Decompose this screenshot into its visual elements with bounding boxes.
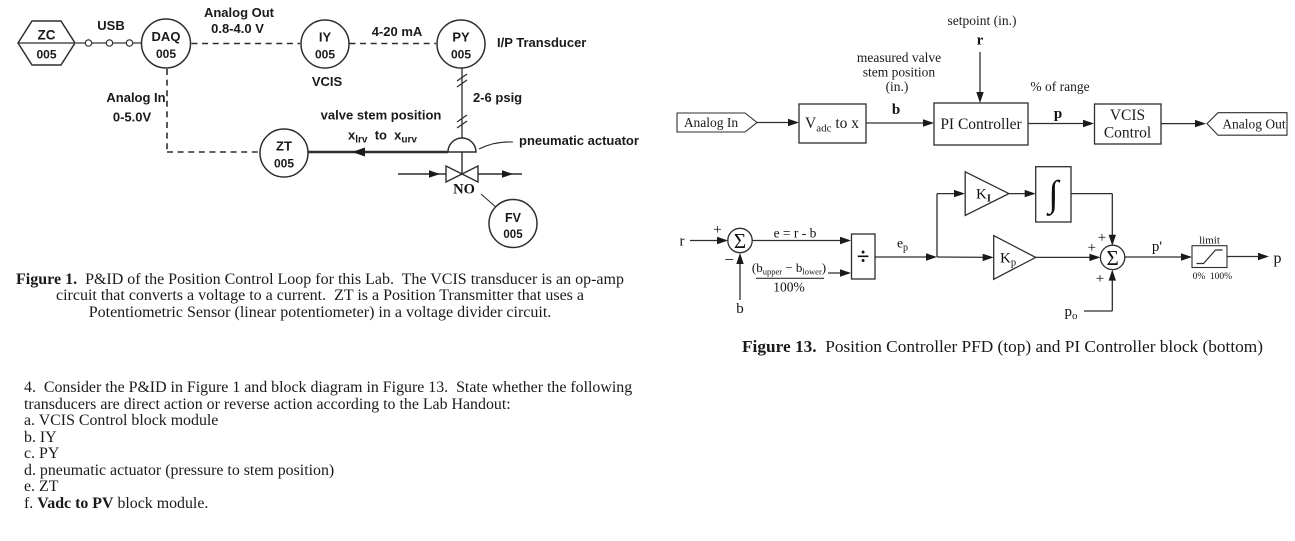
svg-text:r: r — [680, 234, 685, 250]
gain KI triangle — [965, 172, 1009, 216]
svg-text:005: 005 — [503, 229, 523, 241]
valve stem wire — [461, 152, 463, 174]
svg-text:100%: 100% — [773, 280, 805, 295]
control valve FV body — [446, 166, 478, 182]
svg-text:005: 005 — [451, 48, 471, 62]
svg-text:ep: ep — [897, 236, 908, 254]
svg-text:100%: 100% — [1210, 272, 1232, 282]
svg-text:÷: ÷ — [857, 244, 870, 269]
svg-text:ZT: ZT — [276, 139, 292, 154]
label span fraction — [752, 260, 826, 295]
svg-text:p': p' — [1152, 239, 1163, 255]
tag Analog Out — [1207, 113, 1287, 136]
svg-text:−: − — [724, 250, 734, 269]
svg-text:+: + — [1088, 240, 1096, 256]
wire PI to VCIS — [1028, 120, 1094, 127]
wire KI to integrator — [1009, 190, 1036, 197]
FV pointer line — [481, 194, 498, 209]
summing junction 2 — [1100, 245, 1124, 270]
label Analog In 0-5.0V — [106, 90, 165, 125]
wire junction to Kp — [937, 254, 994, 261]
svg-text:IY: IY — [319, 30, 332, 45]
svg-text:% of range: % of range — [1030, 79, 1089, 94]
svg-text:b: b — [736, 301, 744, 317]
svg-text:xlrv to xurv: xlrv to xurv — [348, 128, 417, 146]
label measured valve stem position — [857, 50, 941, 94]
svg-text:pneumatic actuator: pneumatic actuator — [519, 133, 639, 148]
label Analog Out 0.8-4.0 V — [204, 5, 275, 36]
svg-text:VCIS: VCIS — [1110, 107, 1145, 124]
process flow wire right with arrow — [478, 170, 522, 178]
svg-text:DAQ: DAQ — [152, 29, 181, 44]
svg-text:p: p — [1274, 250, 1282, 267]
wire VCIS to Analog Out tag — [1161, 120, 1206, 127]
svg-text:measured valve: measured valve — [857, 50, 941, 65]
wire r to sum1 — [690, 237, 728, 244]
svg-text:4-20 mA: 4-20 mA — [372, 24, 423, 39]
svg-text:005: 005 — [274, 157, 294, 171]
question 4 text — [24, 380, 684, 512]
wire setpoint down — [976, 52, 983, 103]
wire b to PI controller — [866, 119, 934, 126]
svg-text:Vadc to x: Vadc to x — [805, 115, 859, 135]
svg-text:Analog In: Analog In — [106, 90, 165, 105]
svg-text:e = r - b: e = r - b — [774, 226, 817, 241]
wire fraction to divide — [828, 269, 851, 276]
svg-text:VCIS: VCIS — [312, 74, 343, 89]
svg-text:USB: USB — [97, 18, 124, 33]
svg-text:stem position: stem position — [863, 65, 936, 80]
svg-text:+: + — [1098, 230, 1106, 246]
pneumatic signal wire PY to actuator — [457, 69, 467, 139]
svg-text:limit: limit — [1199, 235, 1220, 247]
svg-text:005: 005 — [156, 47, 176, 61]
svg-text:0-5.0V: 0-5.0V — [113, 110, 152, 125]
instrument bubble DAQ005 — [142, 19, 191, 68]
svg-text:(in.): (in.) — [886, 79, 909, 94]
svg-text:p: p — [1054, 106, 1062, 122]
svg-text:PY: PY — [452, 30, 470, 45]
block PI Controller — [934, 103, 1028, 145]
process flow wire left with arrow — [398, 170, 446, 178]
gain Kp triangle — [994, 236, 1036, 280]
pneumatic actuator dome — [448, 138, 476, 152]
summing junction 1 — [728, 228, 752, 253]
wire limit to p — [1227, 253, 1269, 260]
actuator pointer line — [479, 142, 513, 149]
wire tag to Vadc block — [757, 119, 799, 126]
svg-text:0.8-4.0 V: 0.8-4.0 V — [211, 21, 264, 36]
svg-text:0%: 0% — [1193, 272, 1206, 282]
svg-text:b: b — [892, 102, 900, 118]
svg-text:+: + — [1096, 271, 1104, 287]
instrument bubble IY005 — [301, 20, 349, 68]
svg-text:FV: FV — [505, 211, 522, 225]
wire sum1 to divide — [752, 237, 851, 244]
svg-text:+: + — [713, 222, 721, 238]
instrument bubble PY005 — [437, 20, 485, 68]
wire divide output to junction — [875, 253, 937, 260]
integrator block — [1036, 167, 1071, 222]
dashed signal wire to ZT — [167, 151, 259, 153]
instrument bubble FV005 — [489, 200, 537, 248]
svg-text:Analog Out: Analog Out — [1222, 117, 1286, 132]
svg-text:∫: ∫ — [1045, 174, 1060, 216]
USB data link wire with circles — [76, 40, 142, 46]
wire po up to sum2 — [1084, 270, 1116, 311]
svg-text:po: po — [1065, 304, 1079, 322]
block Vadc to x — [799, 104, 866, 143]
svg-text:NO: NO — [453, 182, 475, 198]
svg-text:I/P Transducer: I/P Transducer — [497, 35, 586, 50]
divide block — [852, 234, 876, 279]
dashed signal wire IY to PY — [350, 43, 437, 45]
svg-text:PI Controller: PI Controller — [940, 116, 1022, 133]
svg-text:Analog Out: Analog Out — [204, 5, 275, 20]
svg-text:r: r — [977, 33, 984, 49]
stem position wire to ZT with arrow — [309, 148, 449, 157]
svg-text:valve stem position: valve stem position — [321, 108, 442, 123]
svg-text:Σ: Σ — [1106, 246, 1118, 270]
wire integrator to sum2 — [1071, 194, 1116, 246]
wire b up to sum1 — [736, 253, 743, 300]
svg-text:Analog In: Analog In — [684, 115, 739, 130]
dashed signal wire DAQ down — [166, 69, 168, 152]
svg-text:ZC: ZC — [38, 28, 56, 43]
svg-text:2-6 psig: 2-6 psig — [473, 90, 522, 105]
figure 13 caption — [680, 337, 1295, 357]
block VCIS Control — [1095, 104, 1162, 144]
svg-text:005: 005 — [36, 48, 56, 62]
instrument bubble ZT005 — [260, 129, 308, 177]
svg-text:Control: Control — [1104, 125, 1151, 142]
wire Kp to sum2 — [1036, 254, 1101, 261]
svg-text:(bupper − blower): (bupper − blower) — [752, 260, 826, 277]
svg-text:005: 005 — [315, 48, 335, 62]
tag Analog In — [677, 113, 757, 132]
wire junction up to KI — [937, 190, 965, 257]
controller ZC005 hexagon — [18, 21, 75, 65]
svg-text:Σ: Σ — [734, 229, 746, 253]
figure 1 caption — [0, 272, 640, 322]
limit block — [1192, 235, 1232, 283]
svg-text:setpoint (in.): setpoint (in.) — [948, 13, 1017, 28]
wire sum2 to limit — [1125, 253, 1192, 260]
dashed signal wire DAQ to IY — [192, 43, 301, 45]
